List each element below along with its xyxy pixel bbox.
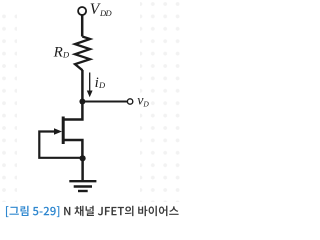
svg-text:D: D (98, 80, 106, 90)
svg-text:D: D (62, 50, 70, 60)
svg-text:R: R (53, 45, 63, 61)
svg-text:DD: DD (99, 8, 113, 18)
svg-text:D: D (142, 99, 149, 108)
